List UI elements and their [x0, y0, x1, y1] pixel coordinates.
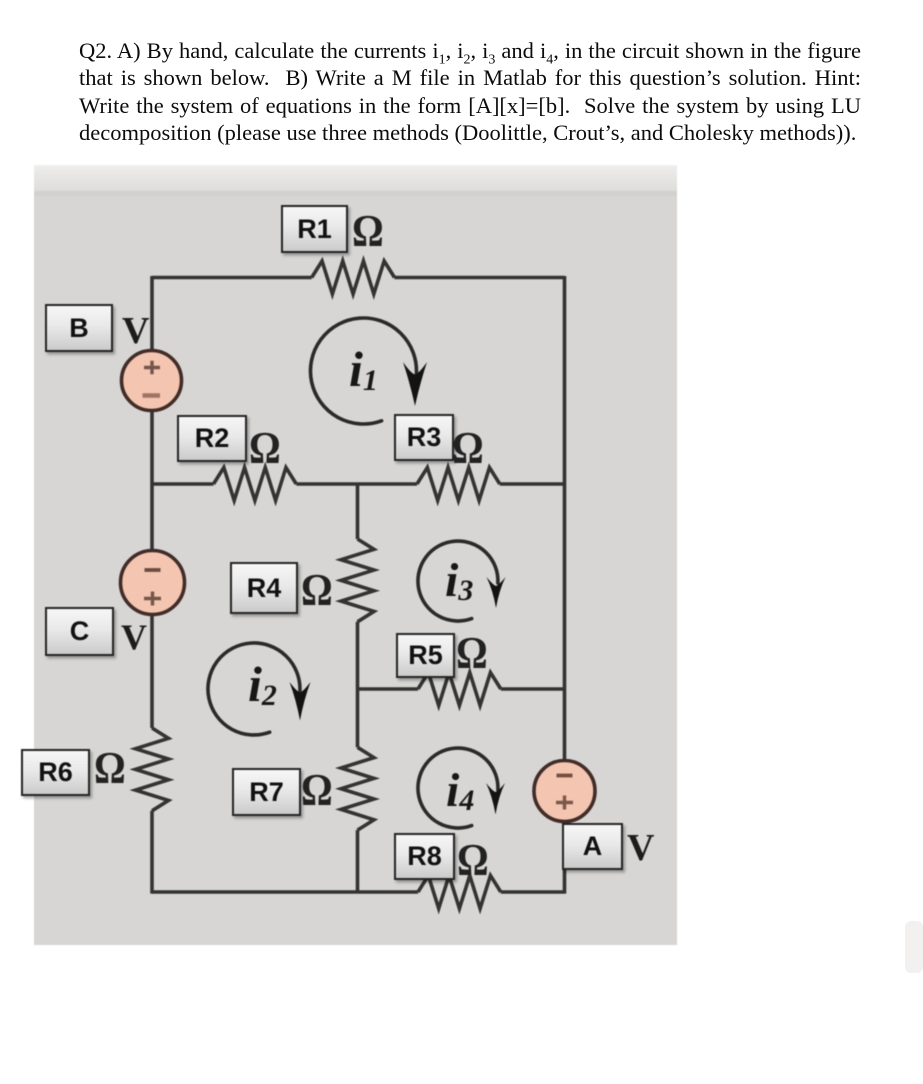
wire: top loop left segment	[152, 276, 312, 280]
V for B	[122, 312, 149, 350]
voltage source A	[534, 761, 595, 822]
omega for R2	[249, 426, 281, 471]
circuit panel background	[34, 165, 677, 945]
resistor R2 zigzag	[214, 468, 297, 501]
label button R7	[232, 768, 301, 816]
resistor R1 zigzag	[312, 261, 395, 294]
wire: top loop right segment	[395, 276, 565, 280]
faint scroll artifact bottom right	[905, 921, 923, 973]
label button A	[562, 823, 623, 870]
loop i2 arc	[208, 643, 300, 735]
label button R5	[396, 633, 455, 678]
label button R4	[230, 562, 298, 614]
resistor R6 zigzag	[136, 728, 169, 811]
omega for R1	[352, 209, 384, 254]
wire: R5 row right segment	[501, 687, 565, 691]
wire: left vertical upper	[150, 276, 154, 728]
loop i4 arc	[418, 748, 498, 828]
V for C	[121, 619, 147, 655]
label button R3	[394, 414, 454, 461]
resistor R5 zigzag	[418, 673, 501, 706]
omega for R8	[457, 838, 489, 883]
label button R2	[177, 415, 247, 462]
omega for R7	[301, 768, 333, 813]
wire: R5 row left segment	[358, 687, 419, 691]
resistor R7 zigzag	[341, 747, 374, 830]
wire: second row left segment	[152, 482, 214, 486]
wire: right vertical	[563, 276, 567, 894]
omega for R5	[456, 631, 488, 676]
loop i2 arrowhead	[290, 682, 311, 721]
label button R1	[281, 205, 348, 253]
wire: middle branch middle segment	[356, 622, 360, 748]
voltage source B	[122, 351, 182, 411]
label button R6	[21, 749, 90, 796]
label button C	[45, 607, 114, 656]
current label i3	[445, 557, 473, 605]
wire: second row middle segment	[296, 482, 417, 486]
loop i1 arc	[310, 318, 416, 424]
wire: left vertical lower	[150, 811, 154, 894]
current label i2	[248, 659, 277, 709]
wire: middle branch lower segment	[356, 830, 360, 892]
wire: middle branch upper segment	[356, 484, 360, 539]
loop i3 arc	[418, 541, 498, 621]
question text	[79, 37, 861, 147]
label button R8	[394, 833, 455, 880]
current label i4	[446, 767, 474, 815]
wire: bottom left segment	[152, 890, 418, 894]
resistor R4 zigzag	[341, 539, 374, 622]
loop i1 arrowhead	[403, 362, 427, 406]
V for A	[627, 829, 654, 867]
current label i1	[349, 344, 378, 394]
label button B	[45, 304, 113, 352]
resistor R8 zigzag	[418, 876, 501, 909]
omega for R4	[301, 568, 333, 613]
wire: second row right segment	[500, 482, 565, 486]
wire: bottom right segment	[501, 890, 565, 894]
omega for R6	[94, 746, 126, 791]
resistor R3 zigzag	[417, 468, 500, 501]
loop i4 arrowhead	[486, 783, 505, 815]
omega for R3	[452, 426, 484, 471]
loop i3 arrowhead	[487, 577, 506, 608]
voltage source C	[121, 551, 185, 615]
